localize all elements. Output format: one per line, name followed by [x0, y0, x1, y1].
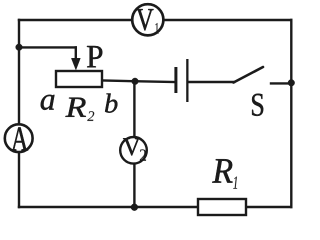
- label R2 subscript 2: [87, 111, 94, 121]
- rheostat R2 box: [56, 71, 102, 87]
- rheostat wiper arrowhead: [71, 58, 80, 70]
- wire switch stub to right side: [271, 82, 291, 84]
- label b (right terminal): [105, 94, 117, 113]
- switch S blade: [234, 67, 264, 83]
- resistor R1 box: [198, 199, 246, 215]
- node: junction right wire at switch: [288, 80, 295, 87]
- voltmeter V1: [132, 4, 163, 35]
- wire wiper shaft: [75, 47, 77, 60]
- label R1 subscript 1: [233, 177, 237, 189]
- wire bottom: [19, 206, 291, 208]
- ammeter letter A: [11, 127, 28, 150]
- wire right side: [290, 20, 292, 207]
- wire middle branch (rheostat to battery): [102, 81, 175, 83]
- voltmeter V1 letter V: [136, 9, 153, 30]
- label R2 letter R: [65, 98, 86, 117]
- wire V2 branch vertical: [133, 82, 135, 208]
- node: junction on left wire (wiper tap): [16, 44, 23, 51]
- voltmeter V2: [120, 137, 147, 164]
- node: junction V2 top: [132, 78, 139, 85]
- battery negative plate (short): [174, 67, 177, 93]
- label R1 letter R: [212, 159, 232, 182]
- ammeter A: [5, 124, 33, 152]
- label a (left terminal): [41, 95, 55, 110]
- wire wiper horizontal from left side: [19, 46, 76, 48]
- voltmeter V2 subscript 2: [140, 149, 146, 160]
- wire left side: [18, 20, 20, 207]
- label P (wiper): [87, 46, 102, 67]
- voltmeter V2 letter V: [123, 138, 140, 155]
- label S (switch): [252, 94, 263, 116]
- wire top (left corner to right corner through V1): [19, 19, 291, 21]
- wire battery to switch: [188, 81, 234, 83]
- battery positive plate (long): [186, 59, 188, 102]
- node: junction V2 bottom: [131, 204, 138, 211]
- voltmeter V1 subscript 1: [155, 23, 158, 34]
